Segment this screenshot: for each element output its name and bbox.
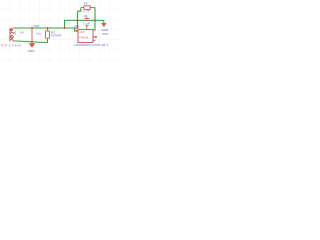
wire to R6 left — [78, 8, 81, 12]
pin right 3 — [93, 39, 96, 41]
junction at riser — [64, 27, 66, 29]
junction at parallel vertical bottom — [77, 27, 79, 29]
pin IN+ arrow — [75, 30, 78, 32]
ground GND1 — [28, 28, 36, 52]
resistor R6 — [81, 6, 93, 10]
pin VDD top — [86, 25, 88, 29]
junction on bottom wire — [31, 41, 33, 43]
svg-text:2.2K: 2.2K — [83, 10, 90, 13]
junction at GND1 tap — [31, 27, 33, 29]
junction at parallel vertical top — [77, 19, 79, 21]
svg-text:GND: GND — [101, 28, 109, 32]
svg-text:NOMNT: NOMNT — [51, 34, 62, 38]
svg-text:1Vp: 1Vp — [36, 32, 42, 35]
pin VO right 2 — [93, 36, 97, 37]
op-amp U1 LM4880 — [78, 30, 93, 43]
capacitor C8 — [84, 17, 89, 21]
svg-text:AIN: AIN — [74, 24, 79, 28]
svg-text:R6: R6 — [84, 1, 88, 5]
resistor R2 — [46, 28, 50, 39]
wire bottom from jack to R2 bottom — [15, 41, 48, 43]
wire parallel vertical — [77, 11, 79, 28]
junction at R6 right bus — [94, 19, 96, 21]
wire top from jack to amp input — [14, 27, 78, 29]
wire R6 right to bus — [93, 8, 95, 30]
pin right 1 — [93, 29, 95, 31]
svg-text:GND: GND — [28, 49, 36, 53]
pin numbers P1 — [15, 31, 17, 36]
svg-text:27pF: 27pF — [33, 24, 39, 28]
svg-text:+IN 5: +IN 5 — [79, 32, 85, 34]
wire R2 bottom stub — [47, 40, 49, 43]
svg-text:C8: C8 — [84, 14, 88, 18]
ground GND2 — [101, 23, 109, 36]
connector P1 audio jack — [10, 28, 16, 41]
svg-text:IN: IN — [20, 31, 24, 35]
wire up-and-over branch — [65, 20, 104, 28]
svg-text:GND: GND — [102, 32, 108, 36]
pin number 5 — [85, 25, 88, 27]
svg-text:LM4880MX/NOPB AB-7: LM4880MX/NOPB AB-7 — [74, 43, 109, 47]
junction at R2 top — [47, 27, 49, 29]
svg-text:PJ3-CTIA36: PJ3-CTIA36 — [1, 43, 21, 47]
svg-text:+VB VOL: +VB VOL — [79, 37, 89, 39]
wire input pin bend — [75, 28, 78, 31]
svg-text:0.1uF: 0.1uF — [83, 21, 91, 25]
